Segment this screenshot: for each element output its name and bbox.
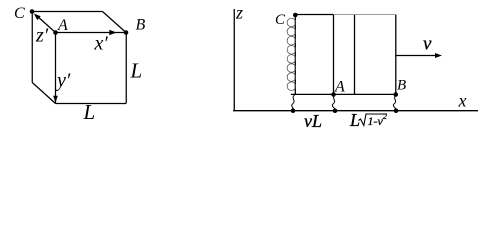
- wire top edge black part: [295, 14, 333, 16]
- svg-text:A: A: [57, 17, 68, 34]
- wire v arrow shaft: [396, 55, 436, 57]
- node axis below A: [333, 108, 338, 113]
- arrowhead z-prime: [34, 14, 41, 21]
- node C: [30, 9, 35, 14]
- node axis below B: [394, 108, 399, 113]
- svg-text:v: v: [423, 33, 432, 54]
- squiggle under C edge: [292, 95, 295, 110]
- squiggle under B: [393, 95, 396, 110]
- svg-text:L: L: [130, 59, 143, 83]
- wire left edge of image (edge C): [294, 15, 296, 94]
- squiggle under A: [332, 95, 335, 110]
- arrowhead x-prime: [109, 30, 116, 36]
- wire front right edge: [125, 33, 127, 104]
- svg-text:B: B: [136, 17, 146, 34]
- wire inner vertical second: [354, 15, 356, 95]
- wire slant back-bottom-left to front-bottom-left: [32, 83, 55, 104]
- wire back left edge: [31, 12, 33, 83]
- z axis: [233, 9, 235, 111]
- node A image: [331, 92, 336, 97]
- node A: [53, 30, 58, 35]
- wire front bottom edge: [56, 103, 127, 105]
- coil on edge C: [287, 18, 296, 90]
- svg-text:x: x: [458, 91, 467, 111]
- wire inner vertical at A: [333, 15, 335, 95]
- svg-text:z′: z′: [35, 25, 49, 47]
- svg-text:B: B: [397, 78, 406, 94]
- radical sign with vinculum: [359, 114, 388, 126]
- svg-text:z: z: [235, 2, 243, 22]
- wire front top edge A to B: [56, 32, 127, 34]
- wire right edge at B: [395, 15, 397, 95]
- node B: [124, 30, 129, 35]
- svg-text:L: L: [83, 100, 96, 124]
- svg-text:vL: vL: [304, 111, 322, 131]
- wire z-prime axis A to C: [37, 16, 56, 33]
- node C image: [293, 13, 298, 18]
- svg-text:C: C: [275, 12, 286, 28]
- svg-text:2: 2: [383, 111, 388, 121]
- arrowhead y-prime: [53, 96, 58, 103]
- svg-text:x′: x′: [94, 33, 109, 55]
- wire back top edge C to back-top-right: [32, 11, 102, 13]
- svg-text:C: C: [14, 5, 25, 22]
- svg-text:A: A: [334, 79, 345, 96]
- x axis: [233, 110, 478, 112]
- wire front left edge: [55, 33, 57, 104]
- wire slant back-top-right to B: [103, 12, 127, 33]
- node B image: [394, 92, 399, 97]
- wire top edge gray part: [334, 14, 396, 15]
- svg-text:1-v: 1-v: [368, 114, 384, 128]
- wire bottom edge: [291, 93, 396, 95]
- svg-text:y′: y′: [55, 70, 71, 92]
- arrowhead v: [435, 53, 442, 58]
- label L sqrt(1-v^2): [349, 110, 388, 130]
- node axis below C: [291, 108, 296, 113]
